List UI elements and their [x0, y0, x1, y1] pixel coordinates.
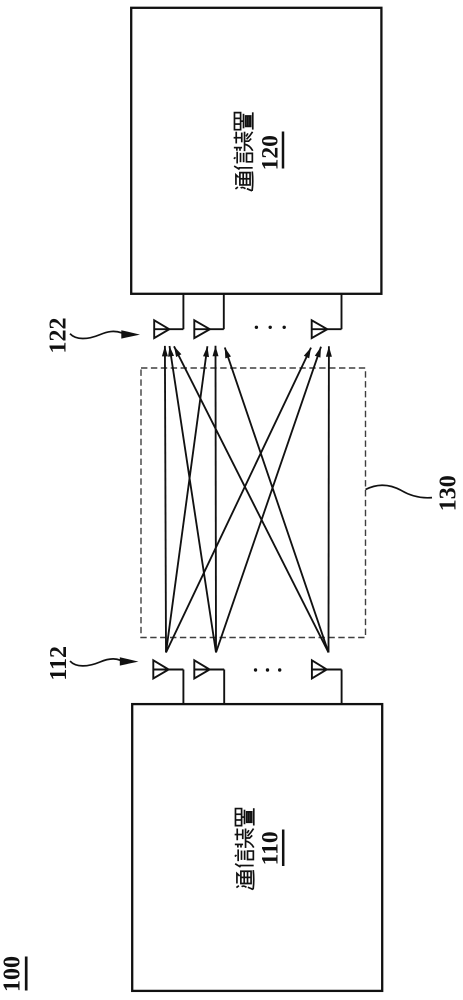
antenna 122-1 (top left) symbol	[154, 294, 183, 338]
underline of 100	[25, 957, 28, 991]
wire channel path h12 (bottom antenna 1 to top antenna 2)	[166, 346, 209, 652]
antenna 122-2 (top middle) symbol	[194, 294, 224, 338]
antenna 122-2 (top middle) triangle radiator	[194, 320, 210, 338]
glyph 装	[235, 829, 254, 848]
svg-text:120: 120	[258, 135, 284, 170]
wire antenna 122-1 (top left) feed line	[154, 328, 183, 330]
wire antenna 112-1 (bottom left) feed line	[153, 669, 183, 671]
antenna 112-2 (bottom middle) triangle radiator	[194, 660, 209, 678]
svg-text:100: 100	[0, 956, 25, 992]
antenna 112-3 (bottom right) triangle radiator	[312, 660, 327, 678]
leader squiggle arrow for 122	[70, 330, 140, 338]
glyph 信	[234, 152, 253, 170]
antenna 112-1 (bottom left) triangle radiator	[153, 660, 168, 678]
glyph 置	[234, 112, 252, 129]
wire antenna 112-2 (bottom middle) feed line	[194, 669, 224, 671]
wire antenna 122-2 (top middle) stub to device box	[223, 294, 225, 329]
glyph 装	[234, 132, 253, 151]
svg-text:110: 110	[258, 831, 284, 865]
underline of 120	[282, 132, 285, 169]
wire antenna 112-1 (bottom left) stub to device box	[182, 670, 184, 705]
glyph 信	[235, 849, 254, 867]
wire antenna 112-3 (bottom right) stub to device box	[341, 670, 343, 705]
antenna 112-1 (bottom left) symbol	[153, 660, 183, 704]
wire channel path h32 (bottom antenna 3 to top antenna 2)	[225, 348, 329, 653]
wire antenna 122-1 (top left) stub to device box	[182, 294, 184, 329]
wire channel path h31 (bottom antenna 3 to top antenna 1)	[174, 346, 329, 652]
wire antenna 112-3 (bottom right) feed line	[312, 669, 342, 671]
label 通信装置 (device 120)	[234, 112, 253, 191]
antenna 112-2 (bottom middle) symbol	[194, 660, 224, 704]
glyph 通	[235, 172, 252, 191]
wire channel path h33 (bottom antenna 3 to top antenna 3)	[326, 346, 332, 652]
wire antenna 122-2 (top middle) feed line	[194, 328, 224, 330]
communication device box 120	[131, 8, 381, 294]
wire antenna 122-3 (top right) stub to device box	[341, 294, 343, 329]
leader squiggle arrow for 112	[70, 657, 139, 666]
svg-text:122: 122	[45, 318, 71, 354]
channel region dashed box 130	[141, 368, 366, 638]
wire channel path h22 (bottom antenna 2 to top antenna 2)	[213, 346, 219, 653]
ellipsis dots bottom antenna row	[254, 668, 282, 671]
glyph 置	[235, 808, 253, 825]
wire channel path h11 (bottom antenna 1 to top antenna 1)	[162, 346, 168, 653]
wire antenna 112-2 (bottom middle) stub to device box	[223, 670, 225, 705]
communication device box 110	[132, 704, 382, 991]
wire antenna 122-3 (top right) feed line	[312, 328, 342, 330]
wire channel path h21 (bottom antenna 2 to top antenna 1)	[168, 346, 216, 653]
glyph 通	[236, 870, 253, 889]
wire channel path h23 (bottom antenna 2 to top antenna 3)	[216, 347, 321, 653]
antenna 112-3 (bottom right) symbol	[312, 660, 342, 704]
antenna 122-1 (top left) triangle radiator	[154, 320, 169, 338]
ellipsis dots top antenna row	[255, 326, 286, 329]
underline of 110	[282, 830, 285, 867]
antenna 122-3 (top right) symbol	[312, 294, 342, 338]
wire channel path h13 (bottom antenna 1 to top antenna 3)	[166, 348, 311, 653]
leader squiggle for 130	[366, 485, 433, 498]
svg-text:130: 130	[436, 475, 462, 511]
label 通信装置 (device 110)	[235, 808, 254, 889]
svg-text:112: 112	[46, 646, 72, 681]
antenna 122-3 (top right) triangle radiator	[312, 320, 328, 338]
